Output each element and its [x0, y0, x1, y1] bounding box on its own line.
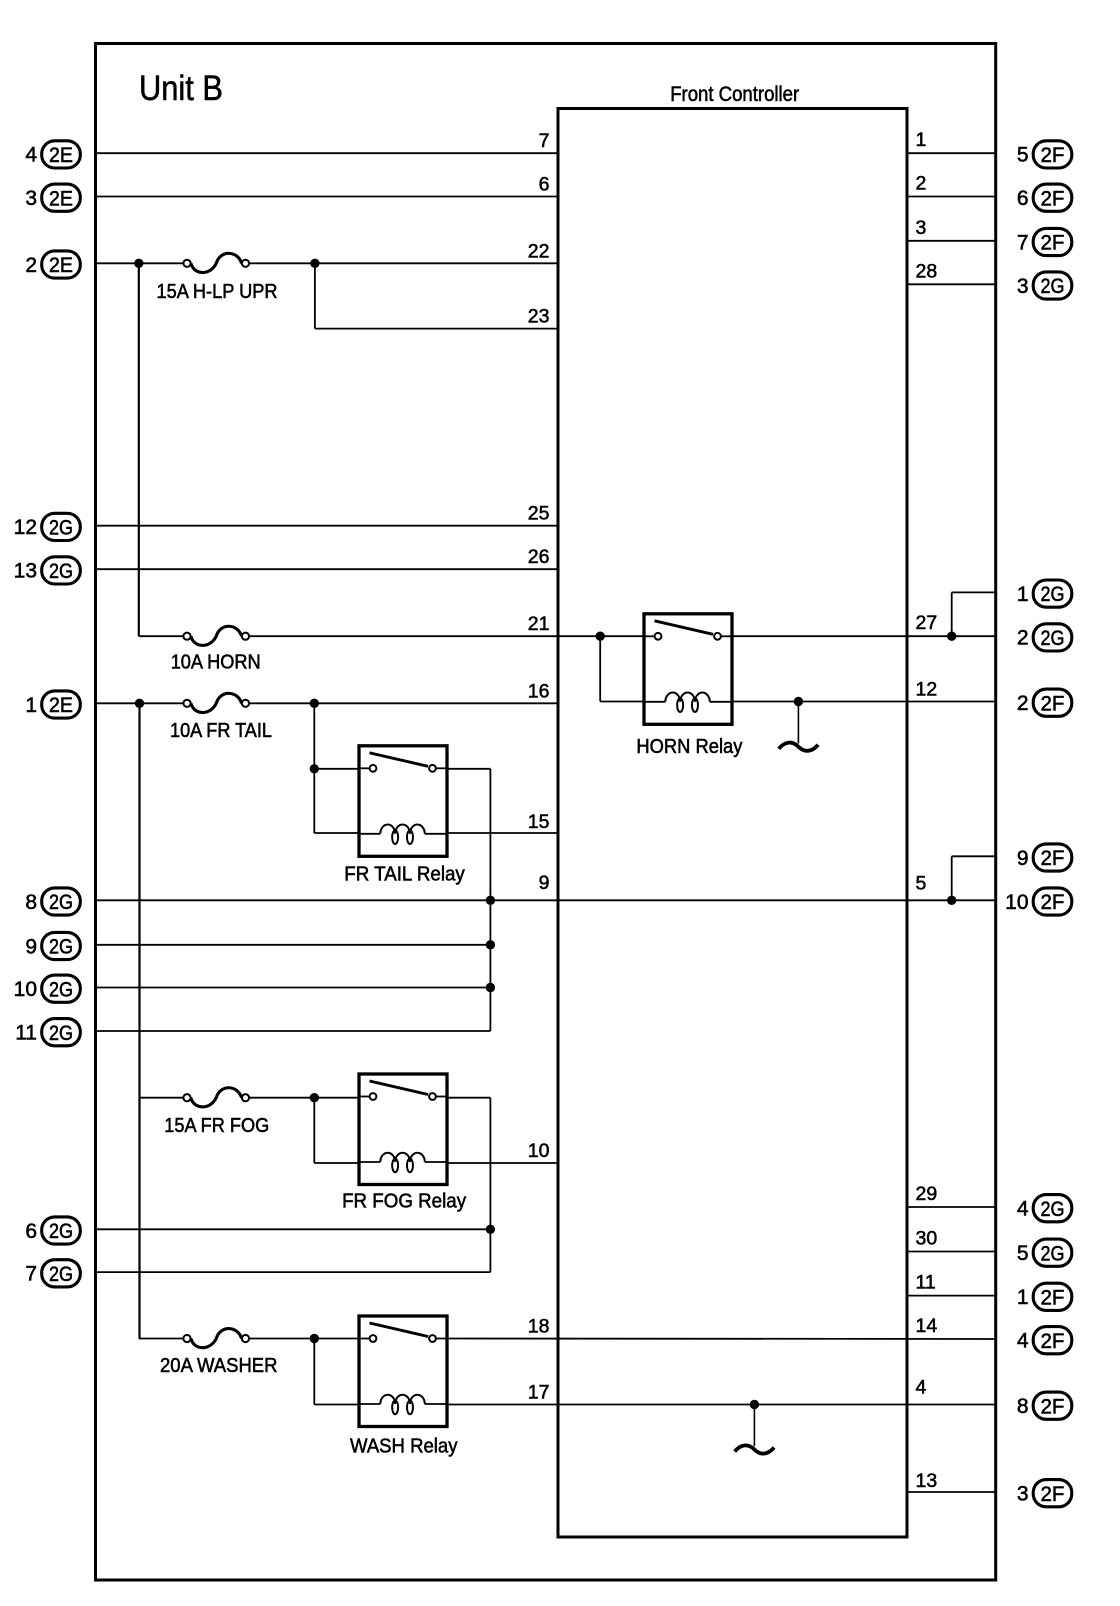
junction pin 23 branch on pin 22 wire [310, 259, 319, 268]
svg-text:2F: 2F [1041, 691, 1065, 715]
svg-text:27: 27 [916, 612, 938, 634]
svg-text:2G: 2G [49, 1219, 73, 1243]
svg-text:2E: 2E [49, 186, 73, 210]
svg-text:2F: 2F [1041, 1394, 1065, 1418]
svg-text:2G: 2G [49, 1021, 73, 1045]
node 3(2G) output [1017, 272, 1072, 299]
fuse F5 20A WASHER [183, 1329, 249, 1348]
svg-text:21: 21 [528, 613, 550, 635]
svg-text:3: 3 [25, 187, 37, 210]
junction FR FOG relay coil tap [310, 1093, 319, 1102]
fuse F2 10A HORN [183, 626, 249, 645]
svg-text:13: 13 [916, 1470, 938, 1492]
svg-text:11: 11 [15, 1022, 37, 1045]
junction HORN relay coil tap [596, 632, 605, 641]
node 6(2G) output [25, 1217, 80, 1244]
node 7(2G) output [25, 1260, 80, 1287]
svg-text:FR FOG Relay: FR FOG Relay [342, 1191, 466, 1213]
wire FR TAIL fuse output down to relay [314, 703, 359, 833]
svg-text:28: 28 [916, 260, 938, 282]
wire pin 9/5 through controller to 10(2F) [558, 899, 996, 901]
svg-text:5: 5 [1017, 144, 1029, 167]
svg-text:11: 11 [916, 1272, 936, 1294]
wire WASHER fuse line [139, 1338, 359, 1340]
svg-text:1: 1 [1017, 583, 1029, 606]
node 4(2F) washer motor [1017, 1327, 1072, 1354]
Front Controller box [558, 109, 907, 1538]
svg-text:1: 1 [25, 694, 37, 717]
svg-text:14: 14 [916, 1315, 938, 1337]
wire pin 29 to 4(2G) [907, 1206, 996, 1208]
fuse F4 15A FR FOG [183, 1088, 249, 1107]
junction 1(2E) feed on pin 16 wire [135, 699, 144, 708]
svg-text:Unit B: Unit B [139, 68, 223, 108]
wire pin 21 through HORN relay to pin 27 and 2(2G) [558, 635, 996, 637]
junction 2(2E) feed on pin 22 wire [134, 259, 143, 268]
svg-text:2F: 2F [1041, 1482, 1065, 1506]
svg-text:1: 1 [916, 129, 927, 151]
node 3(2F) output [1017, 1480, 1072, 1507]
svg-text:FR TAIL Relay: FR TAIL Relay [344, 864, 465, 886]
wire FR FOG relay coil to pin 10 [447, 1162, 558, 1164]
svg-text:9: 9 [1017, 847, 1029, 870]
wire 13(2G) to pin 26 [96, 568, 559, 570]
node 12(2G) input [14, 513, 81, 540]
feed wire from 1(2E) down to WASHER fuse [138, 703, 140, 1338]
node 5(2F) output [1017, 141, 1072, 168]
svg-text:4: 4 [1017, 1330, 1029, 1353]
junction FR TAIL relay branch on pin 16 wire [310, 699, 319, 708]
wire 3(2E) to pin 6 [96, 196, 559, 198]
svg-text:2G: 2G [1041, 1197, 1065, 1221]
node 2(2G) horn output [1017, 624, 1072, 651]
junction FR TAIL switch tap [310, 764, 319, 773]
node 6(2F) output [1017, 184, 1072, 211]
ground at HORN relay coil output [779, 702, 818, 751]
wire pin 30 to 5(2G) [907, 1251, 996, 1253]
svg-text:4: 4 [25, 144, 37, 167]
svg-text:1: 1 [1017, 1286, 1029, 1309]
svg-text:25: 25 [528, 503, 550, 525]
node 7(2F) output [1017, 228, 1072, 255]
node 2(2F) coil return [1017, 689, 1072, 716]
junction 8(2G) tap [486, 896, 495, 905]
svg-text:3: 3 [1017, 1483, 1029, 1506]
node 10(2F) output [1005, 888, 1072, 915]
junction 1(2G) branch on pin 27 wire [947, 632, 956, 641]
node 4(2E) battery feed [25, 141, 80, 168]
svg-text:2: 2 [25, 254, 37, 277]
node 1(2F) output [1017, 1283, 1072, 1310]
svg-text:2G: 2G [49, 1262, 73, 1286]
wire 11(2G) [96, 1030, 491, 1032]
wire HORN relay coil to pin 12 and 2(2F) [732, 701, 996, 703]
svg-text:22: 22 [528, 240, 550, 262]
svg-text:15A H-LP UPR: 15A H-LP UPR [157, 281, 278, 303]
svg-text:7: 7 [539, 130, 550, 152]
wire branch to pin 23 [315, 263, 558, 328]
node 10(2G) output [14, 975, 81, 1002]
wire 1(2E) to pin 16 [96, 702, 559, 704]
svg-text:10: 10 [14, 978, 37, 1001]
wire pin 2 to 6(2F) [907, 196, 996, 198]
node 2(2E) battery feed [25, 251, 80, 278]
wire FR FOG fuse line [139, 1097, 359, 1099]
wire pin 11 to 1(2F) [907, 1295, 996, 1297]
fuse F1 15A H-LP UPR [183, 253, 249, 272]
svg-text:7: 7 [25, 1263, 37, 1286]
wire HORN relay coil feed [600, 636, 644, 701]
node 5(2G) output [1017, 1239, 1072, 1266]
svg-text:18: 18 [528, 1316, 550, 1338]
node 8(2G) output [25, 888, 80, 915]
svg-text:3: 3 [916, 217, 927, 239]
wire 6(2G) [96, 1228, 491, 1230]
svg-text:HORN Relay: HORN Relay [636, 736, 742, 758]
svg-text:2G: 2G [1041, 626, 1065, 650]
svg-text:30: 30 [916, 1228, 938, 1250]
svg-text:4: 4 [916, 1377, 927, 1399]
feed wire from 2(2E) down to HORN fuse [139, 263, 558, 636]
svg-text:2: 2 [916, 173, 927, 195]
relay WASH [359, 1316, 447, 1427]
wire FR FOG relay switch output [447, 1098, 490, 1272]
svg-text:6: 6 [25, 1220, 37, 1243]
wire 2(2E) to pin 22 [96, 262, 559, 264]
svg-text:9: 9 [539, 872, 550, 894]
svg-text:2G: 2G [1041, 274, 1065, 298]
wire 9(2G) [96, 944, 491, 946]
svg-text:2F: 2F [1041, 231, 1065, 255]
svg-text:2: 2 [1017, 627, 1029, 650]
wire branch to 1(2G) [952, 592, 996, 636]
svg-text:2E: 2E [49, 693, 73, 717]
relay HORN [644, 614, 732, 725]
svg-text:2F: 2F [1041, 1285, 1065, 1309]
node 3(2E) battery feed [25, 184, 80, 211]
svg-text:2G: 2G [49, 935, 73, 959]
svg-text:13: 13 [14, 560, 37, 583]
svg-text:2F: 2F [1041, 890, 1065, 914]
svg-text:15: 15 [528, 811, 550, 833]
relay FR TAIL [359, 746, 447, 857]
svg-text:29: 29 [916, 1183, 938, 1205]
node 9(2F) output [1017, 844, 1072, 871]
svg-text:2G: 2G [49, 890, 73, 914]
svg-text:2G: 2G [49, 516, 73, 540]
svg-text:7: 7 [1017, 231, 1029, 254]
wire pin 13 to 3(2F) [907, 1491, 996, 1493]
wire 7(2G) [96, 1271, 491, 1273]
wire branch to 9(2F) [952, 856, 996, 900]
wire WASH relay switch to pin 18 through controller to 4(2F) [447, 1338, 996, 1341]
node 13(2G) input [14, 557, 81, 584]
svg-text:16: 16 [528, 680, 550, 702]
svg-text:5: 5 [916, 872, 927, 894]
junction 6(2G) tap [486, 1225, 495, 1234]
svg-text:10A FR TAIL: 10A FR TAIL [170, 720, 272, 742]
svg-text:10: 10 [528, 1140, 550, 1162]
svg-text:15A FR FOG: 15A FR FOG [164, 1115, 269, 1137]
junction ground tap on pin 12 wire [794, 697, 803, 706]
wire 10(2G) [96, 987, 491, 989]
svg-text:23: 23 [528, 306, 550, 328]
wire pin 3 to 7(2F) [907, 240, 996, 242]
node 8(2F) coil return [1017, 1392, 1072, 1419]
svg-text:4: 4 [1017, 1198, 1029, 1221]
junction WASH relay coil tap [310, 1334, 319, 1343]
svg-text:10: 10 [1005, 891, 1028, 914]
fuse F3 10A FR TAIL [183, 693, 249, 712]
wire 4(2E) to pin 7 [96, 152, 559, 154]
svg-text:12: 12 [916, 679, 938, 701]
svg-text:10A HORN: 10A HORN [171, 652, 261, 674]
wire FR FOG fuse output down to relay coil [314, 1098, 359, 1163]
svg-text:2F: 2F [1041, 143, 1065, 167]
wire pin 1 to 5(2F) [907, 152, 996, 154]
relay FR FOG [359, 1074, 447, 1185]
svg-text:8: 8 [25, 891, 37, 914]
svg-text:2G: 2G [1041, 582, 1065, 606]
svg-text:2: 2 [1017, 692, 1029, 715]
svg-text:8: 8 [1017, 1395, 1029, 1418]
svg-text:2F: 2F [1041, 186, 1065, 210]
svg-text:5: 5 [1017, 1242, 1029, 1265]
svg-text:6: 6 [539, 174, 550, 196]
ground at pin 4 wire [735, 1405, 774, 1454]
svg-text:Front Controller: Front Controller [670, 83, 799, 106]
svg-text:20A WASHER: 20A WASHER [160, 1355, 278, 1377]
svg-text:12: 12 [14, 516, 37, 539]
svg-text:2G: 2G [49, 559, 73, 583]
junction 10(2G) tap [486, 983, 495, 992]
outer box Unit B [96, 44, 996, 1581]
wire pin 28 to 3(2G) [907, 283, 996, 285]
svg-text:2E: 2E [49, 143, 73, 167]
svg-text:2F: 2F [1041, 846, 1065, 870]
node 9(2G) output [25, 932, 80, 959]
wire WASH relay coil to pin 17 through controller to 8(2F) [447, 1404, 996, 1406]
node 11(2G) output [15, 1019, 80, 1046]
svg-text:2G: 2G [49, 977, 73, 1001]
svg-text:17: 17 [528, 1382, 550, 1404]
junction 9(2F) branch on pin 5 wire [947, 896, 956, 905]
wire 12(2G) to pin 25 [96, 525, 559, 527]
svg-text:3: 3 [1017, 275, 1029, 298]
svg-text:6: 6 [1017, 187, 1029, 210]
svg-text:9: 9 [25, 935, 37, 958]
junction ground tap on pin 4 wire [750, 1400, 759, 1409]
wire FR TAIL relay coil to pin 15 [447, 832, 558, 834]
node 1(2E) battery feed [25, 691, 80, 718]
wire WASHER fuse output down to relay coil [314, 1339, 359, 1405]
svg-text:26: 26 [528, 546, 550, 568]
svg-text:2E: 2E [49, 253, 73, 277]
svg-text:WASH Relay: WASH Relay [350, 1436, 458, 1458]
wire FR TAIL relay switch output [447, 769, 490, 1031]
node 1(2G) horn output [1017, 580, 1072, 607]
junction 9(2G) tap [486, 940, 495, 949]
node 4(2G) output [1017, 1195, 1072, 1222]
svg-text:2G: 2G [1041, 1241, 1065, 1265]
wire 8(2G) to pin 9 [96, 899, 559, 901]
svg-text:2F: 2F [1041, 1329, 1065, 1353]
